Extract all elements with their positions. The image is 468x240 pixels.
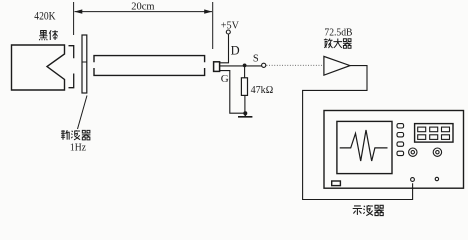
chopper blade CH1 bbox=[82, 35, 87, 93]
detector DET1 bbox=[214, 62, 220, 72]
knob 2 bbox=[433, 148, 441, 156]
leader line to chopper label bbox=[78, 96, 88, 130]
label 放大器 (amplifier) bbox=[324, 39, 352, 49]
aperture plate bottom bbox=[69, 74, 74, 88]
svg-text:+5V: +5V bbox=[221, 20, 240, 31]
svg-text:420K: 420K bbox=[34, 11, 56, 23]
svg-text:47kΩ: 47kΩ bbox=[251, 84, 274, 96]
label 斩波器 (chopper) bbox=[61, 130, 90, 140]
waveform trace bbox=[340, 130, 388, 161]
dotted signal line S to amplifier bbox=[267, 64, 324, 66]
soft key button 3 bbox=[397, 142, 404, 146]
junction node at ground bbox=[243, 111, 247, 115]
button panel box bbox=[415, 124, 453, 143]
svg-text:G: G bbox=[221, 73, 229, 85]
junction node on S wire bbox=[243, 64, 247, 68]
panel button r2c1 bbox=[418, 135, 426, 140]
tube bottom wall bbox=[94, 68, 205, 75]
wire resistor top bbox=[244, 65, 246, 77]
tube top wall bbox=[94, 56, 205, 63]
amplifier A1 bbox=[324, 56, 350, 75]
input terminal 2 bbox=[435, 177, 438, 180]
panel button r1c1 bbox=[418, 127, 426, 132]
resistor R1 47k bbox=[241, 78, 247, 96]
panel button r2c3 bbox=[442, 135, 450, 140]
wire G (gate to ground) bbox=[220, 71, 244, 114]
dimension arrowhead left bbox=[74, 9, 82, 13]
svg-text:S: S bbox=[253, 53, 259, 64]
svg-text:1Hz: 1Hz bbox=[70, 142, 86, 153]
chopper blade divider bbox=[82, 61, 87, 63]
panel button r1c3 bbox=[442, 127, 450, 132]
oscilloscope case bbox=[324, 111, 464, 189]
svg-text:72.5dB: 72.5dB bbox=[324, 27, 352, 39]
svg-text:20cm: 20cm bbox=[131, 1, 154, 12]
wire S (source output) bbox=[220, 65, 262, 67]
blackbody cavity BB1 bbox=[12, 45, 65, 90]
input terminal 1 bbox=[411, 178, 415, 182]
knob 1 bbox=[409, 148, 417, 156]
panel button r1c2 bbox=[430, 127, 438, 132]
svg-text:D: D bbox=[231, 44, 240, 58]
soft key button 4 bbox=[397, 151, 404, 155]
aperture plate top bbox=[69, 46, 74, 59]
power switch bbox=[332, 181, 341, 186]
soft key button 1 bbox=[397, 124, 404, 128]
wire amplifier output to scope input bbox=[303, 66, 413, 200]
wire resistor bottom bbox=[244, 95, 246, 113]
dimension left tick bbox=[73, 2, 75, 35]
soft key button 2 bbox=[397, 133, 404, 137]
ground bbox=[238, 113, 252, 117]
dimension arrowhead right bbox=[204, 9, 212, 13]
panel button r2c2 bbox=[430, 135, 438, 140]
terminal +5V bbox=[226, 30, 230, 34]
terminal S bbox=[262, 63, 266, 67]
label 黑体 (blackbody) bbox=[39, 30, 58, 40]
wire D (drain to +5V) bbox=[220, 34, 229, 63]
dimension right tick bbox=[212, 2, 214, 49]
scope screen bbox=[337, 121, 392, 173]
dimension line 20cm bbox=[75, 11, 213, 13]
label 示波器 (oscilloscope) bbox=[353, 205, 384, 216]
